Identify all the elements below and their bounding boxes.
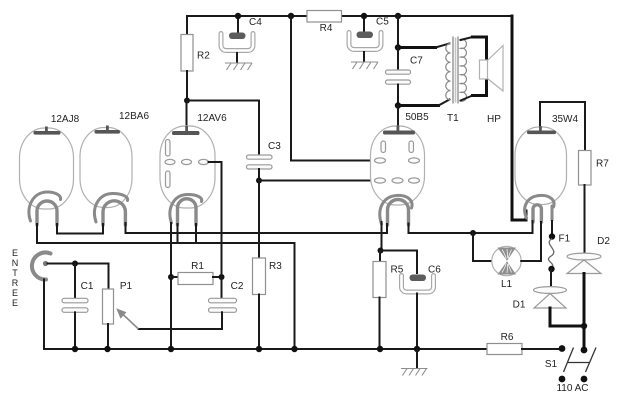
capacitor C1 [62,298,88,312]
junction [470,230,476,236]
wire C5 stem [363,16,365,33]
label ENTREE [12,248,19,308]
wire C3 bottom [258,169,260,181]
wire heater chain 12BA6 to 50B5 [126,223,388,233]
svg-text:R2: R2 [197,51,210,62]
wire top rail right [342,15,513,17]
junction [395,44,401,50]
tube V3 12AV6 [160,126,215,225]
input antenna arc [32,253,51,280]
junction [219,274,225,280]
tube V1 12AJ8 [20,127,74,226]
wire C4 stem [237,16,239,34]
wire ground rail [44,348,487,350]
junction [104,346,110,352]
wire heater link 12AJ8 to 12BA6 [57,224,103,234]
svg-text:E: E [12,298,18,308]
wire x291 down to 50B5 plate [291,16,374,161]
resistor R1 [178,273,213,285]
junction [414,346,420,352]
wire to 50B5 top [397,106,399,129]
wire C2 bottom to P1 wiper [139,312,223,329]
wire input to P1 top [48,264,109,290]
wire x398 to C7 [397,16,399,48]
wire R6 to switch [522,348,562,350]
resistor R5 [373,262,386,298]
junction [256,178,262,184]
wire C3 junction to 50B5 grid [259,180,374,182]
junction [184,98,190,104]
resistor R3 [253,258,266,295]
svg-text:C1: C1 [81,281,94,292]
junction [235,13,241,19]
fuse F1 [548,239,553,269]
junction [168,274,174,280]
svg-text:R6: R6 [501,332,514,343]
wire R7 to D2 [584,185,586,254]
capacitor C3 [247,155,273,169]
wire 12AV6 plate line down to C2 [221,162,223,299]
wire C7 top [397,48,399,71]
wire junction to C6 [381,251,418,274]
svg-text:35W4: 35W4 [552,114,579,125]
diode D1 [534,287,567,308]
svg-text:E: E [12,288,18,298]
lamp L1 [492,246,521,275]
wire L1 branch [473,233,492,261]
wire 12AV6 top lead [186,101,188,129]
junction [395,102,401,108]
capacitor C7 [386,70,411,84]
svg-text:N: N [12,258,19,268]
svg-text:F1: F1 [559,234,571,245]
wire 50B5 cathode down [381,222,383,251]
wire top rail left [187,15,307,17]
wire antenna down to rail [43,280,45,350]
junction [395,13,401,19]
wire R5 bottom [379,298,381,350]
ground below rail [401,349,428,376]
junction [581,323,587,329]
tube V2 12BA6 [80,126,132,226]
potentiometer P1 [103,289,139,329]
wire top rail corner down to 35W4 [512,16,526,220]
resistor R7 [579,151,592,186]
capacitor C4 electrolytic [221,33,253,51]
resistor R4 [307,11,342,23]
junction [168,346,174,352]
wire D2 bottom [583,274,586,327]
wire C1 bottom [74,312,76,349]
svg-text:50B5: 50B5 [405,112,429,123]
junction [361,13,367,19]
wire R1 left stub [171,276,178,278]
svg-text:C3: C3 [268,141,281,152]
transformer T1 [446,37,467,104]
tube V4 50B5 [371,126,425,226]
wire 35W4 top to R7 [540,102,585,151]
junction [72,346,78,352]
diode D2 [567,253,601,273]
wire heater chain 50B5 to 35W4 [409,221,533,233]
junction [291,346,297,352]
svg-text:C5: C5 [376,17,389,28]
svg-text:S1: S1 [545,359,558,370]
svg-text:T: T [12,268,18,278]
svg-text:D2: D2 [597,236,610,247]
wire C6 bottom [416,294,418,350]
wire C7 bottom [397,85,399,106]
wire junction to R3 [258,181,260,259]
capacitor C2 [209,298,237,312]
switch S1 [559,345,596,382]
svg-text:R3: R3 [269,261,282,272]
capacitor C5 electrolytic [349,32,381,50]
svg-text:R1: R1 [191,261,204,272]
svg-text:R7: R7 [596,159,609,170]
svg-text:C7: C7 [410,56,423,67]
junction [549,233,555,239]
wire 35W4 to fuse [551,221,553,237]
resistor R6 [487,344,522,355]
wire F1 to D1 [550,269,552,287]
wire C1 top [74,264,76,299]
wire secondary bottom to speaker [461,96,473,101]
resistor R2 [181,35,193,72]
svg-text:T1: T1 [447,113,459,124]
wire R1 right stub [213,276,222,278]
svg-text:12AJ8: 12AJ8 [51,114,80,125]
wire secondary top to speaker [461,37,473,40]
svg-text:L1: L1 [501,279,513,290]
wire 12AV6 plate pin [209,161,222,163]
wire to transformer primary bottom [398,104,439,107]
wire R2 bottom [186,71,188,101]
svg-text:P1: P1 [120,281,133,292]
svg-text:C2: C2 [231,281,244,292]
junction [288,13,294,19]
svg-text:HP: HP [487,114,501,125]
ground below C4 [225,52,252,70]
wire R2 top [186,16,188,35]
svg-text:12AV6: 12AV6 [197,113,227,124]
svg-text:E: E [12,248,18,258]
wire R5 top stub [379,251,381,262]
svg-text:12BA6: 12BA6 [119,111,149,122]
junction [256,346,262,352]
ground below C5 [351,51,378,69]
svg-text:C6: C6 [428,265,441,276]
svg-text:D1: D1 [513,300,526,311]
speaker HP [480,46,504,92]
wire 12AV6 cathode down [170,223,172,349]
wire to transformer primary top [398,46,436,49]
junction [548,266,554,272]
wire L1 right to 35W4 [521,222,541,261]
junction [72,261,78,267]
svg-text:R4: R4 [320,23,333,34]
wire P1 bottom [107,324,109,349]
junction [377,346,383,352]
svg-text:110 AC: 110 AC [556,383,588,394]
tube V5 35W4 [515,126,567,222]
wire to C3 top [187,101,259,156]
input node [43,261,48,266]
wire 12AJ8 left leg to ground rail [37,224,295,349]
wire D1 bottom [550,308,584,326]
svg-text:C4: C4 [249,17,262,28]
svg-text:R: R [12,278,19,288]
wire R3 bottom [258,295,260,350]
junction [378,248,384,254]
wire to switch [583,326,586,350]
wire 12AV6 heater leads to y243 [178,224,197,242]
capacitor C6 electrolytic [402,275,434,293]
